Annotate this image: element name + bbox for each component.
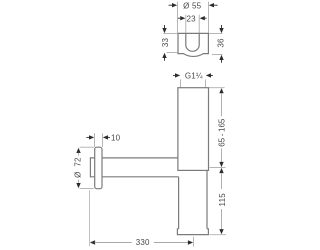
extension line right bottom (cup bottom)	[210, 234, 227, 236]
dimension 115 line with arrows	[219, 168, 223, 234]
dimension G1¼ left arrow	[173, 73, 180, 77]
extension line G1¼ right	[205, 79, 207, 87]
dimension 33 bottom arrow	[162, 53, 166, 61]
dimension 10 right arrow	[103, 135, 110, 139]
extension line right top (thread plane)	[209, 87, 225, 89]
extension line 330 right (trap axis)	[193, 237, 195, 247]
inlet pipe bottom line	[90, 176, 178, 178]
extension line 36 top	[209, 33, 222, 35]
inlet pipe wall end cap	[89, 157, 91, 177]
bracket inner U cutout	[186, 33, 199, 51]
extension line Ø55 left	[177, 2, 179, 34]
cup bottom rim	[177, 229, 208, 235]
extension line 10 right	[102, 133, 104, 147]
dimension Ø55 right arrow	[209, 3, 218, 7]
dimension 330 line with arrows	[90, 240, 193, 244]
svg-text:G1¼: G1¼	[185, 72, 203, 81]
extension line 23 left	[185, 15, 187, 34]
svg-text:Ø 72: Ø 72	[73, 157, 82, 178]
extension line 330 left (wall plane)	[89, 190, 91, 246]
dimension 36 top arrow	[219, 25, 223, 33]
svg-text:36: 36	[216, 38, 225, 48]
svg-text:33: 33	[161, 38, 170, 48]
svg-text:Ø 55: Ø 55	[183, 1, 201, 10]
inlet pipe top line	[90, 157, 177, 159]
bracket outer body with bottom bulge	[178, 33, 208, 56]
dimension 36 bottom arrow	[219, 55, 223, 63]
dimension 65-165 line with arrows	[219, 88, 223, 167]
svg-text:65 - 165: 65 - 165	[218, 118, 227, 147]
cup left edge	[178, 177, 180, 229]
svg-text:115: 115	[218, 193, 227, 207]
extension line 10 left	[94, 133, 96, 147]
dimension Ø72 line with arrows	[76, 148, 80, 188]
extension line Ø72 bottom	[80, 188, 94, 190]
dimension 10 left arrow	[86, 135, 94, 139]
extension line G1¼ left	[180, 79, 182, 87]
extension line Ø72 top	[80, 146, 94, 148]
dimension 23 right arrow	[200, 16, 207, 20]
extension line Ø55 right	[208, 2, 210, 34]
extension line 33 bottom	[167, 52, 178, 54]
svg-text:10: 10	[111, 134, 121, 143]
extension line 33 top	[163, 33, 177, 35]
svg-text:23: 23	[187, 14, 197, 23]
dimension Ø55 left arrow	[169, 3, 178, 7]
dimension 23 left arrow	[178, 16, 186, 20]
dimension G1¼ right arrow	[206, 73, 213, 77]
cup right edge	[206, 170, 208, 228]
extension line right middle (inlet axis)	[210, 167, 226, 169]
trap body upper tube	[178, 88, 209, 171]
extension line 23 right	[198, 15, 200, 34]
svg-text:330: 330	[136, 238, 150, 247]
wall flange (escutcheon)	[95, 147, 102, 189]
dimension 33 top arrow	[162, 25, 166, 33]
extension line 36 bottom	[212, 54, 223, 56]
